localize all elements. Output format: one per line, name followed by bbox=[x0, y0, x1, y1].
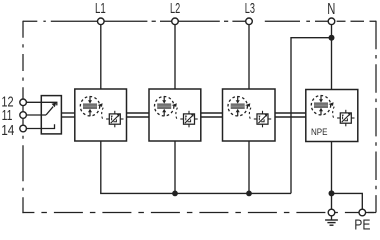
SPD module 4 (N-PE) bbox=[306, 90, 358, 142]
enclosure boundary left segment through terminals bbox=[22, 99, 24, 132]
ground symbol bbox=[325, 216, 338, 225]
terminal L2 bbox=[172, 18, 179, 25]
mechanical linkage module 2 to module 3 bbox=[201, 113, 223, 117]
contact lever with arrowhead bbox=[46, 107, 53, 115]
wire PE branch bbox=[332, 193, 363, 210]
contact 11 wire bbox=[27, 114, 46, 116]
wire N branch to PE bus bbox=[291, 38, 332, 194]
svg-text:14: 14 bbox=[1, 123, 14, 139]
svg-text:NPE: NPE bbox=[311, 127, 328, 138]
enclosure boundary right (dash-dot) bbox=[375, 21, 377, 213]
wire module 1 bottom bbox=[100, 141, 102, 194]
wire bottom bus bbox=[101, 192, 291, 195]
SPD module 3 (L3) bbox=[223, 89, 276, 141]
terminal L1 bbox=[98, 18, 105, 25]
mechanical linkage module 3 to module 4 bbox=[275, 113, 306, 117]
remote signalling changeover contact box bbox=[27, 96, 62, 134]
terminal PE bbox=[359, 209, 366, 216]
terminal 11 bbox=[20, 112, 27, 119]
svg-text:11: 11 bbox=[2, 108, 13, 124]
SPD module 1 (L1) bbox=[75, 89, 127, 141]
mechanical linkage module 1 to module 2 bbox=[127, 113, 150, 117]
enclosure boundary top (dash-dot) bbox=[23, 20, 376, 22]
mechanical linkage remote-contact to module 1 bbox=[61, 113, 74, 117]
enclosure boundary bottom (dash-dot) bbox=[22, 212, 376, 214]
terminal earth bbox=[328, 209, 335, 216]
svg-text:L1: L1 bbox=[95, 1, 106, 17]
enclosure boundary left upper (dash-dot) bbox=[22, 21, 24, 99]
enclosure boundary bottom-right corner piece bbox=[368, 212, 376, 214]
svg-text:L3: L3 bbox=[245, 1, 255, 17]
contact 14 wire bbox=[27, 124, 55, 128]
node bus-L2 junction bbox=[172, 191, 178, 197]
wire module 2 bottom bbox=[174, 141, 176, 194]
wire L2 vertical bbox=[174, 24, 176, 89]
node bus-L3 junction bbox=[246, 191, 252, 197]
SPD module 2 (L2) bbox=[149, 89, 201, 141]
terminal L3 bbox=[246, 18, 253, 25]
enclosure boundary left lower (dash-dot) bbox=[22, 132, 24, 213]
wire module 4 bottom to earth terminal bbox=[331, 141, 333, 210]
svg-text:N: N bbox=[327, 1, 335, 18]
svg-text:PE: PE bbox=[354, 217, 370, 233]
terminal 14 bbox=[20, 125, 27, 132]
terminal N bbox=[328, 18, 335, 25]
wire L3 vertical bbox=[248, 24, 250, 89]
contact 12 wire bbox=[27, 102, 57, 105]
svg-text:L2: L2 bbox=[170, 1, 180, 17]
wire L1 vertical bbox=[100, 24, 102, 89]
node PE junction bbox=[329, 190, 335, 196]
node N junction bbox=[329, 35, 335, 41]
terminal 12 bbox=[20, 99, 27, 106]
wire module 3 bottom bbox=[248, 141, 250, 194]
wire N vertical bbox=[331, 24, 333, 90]
